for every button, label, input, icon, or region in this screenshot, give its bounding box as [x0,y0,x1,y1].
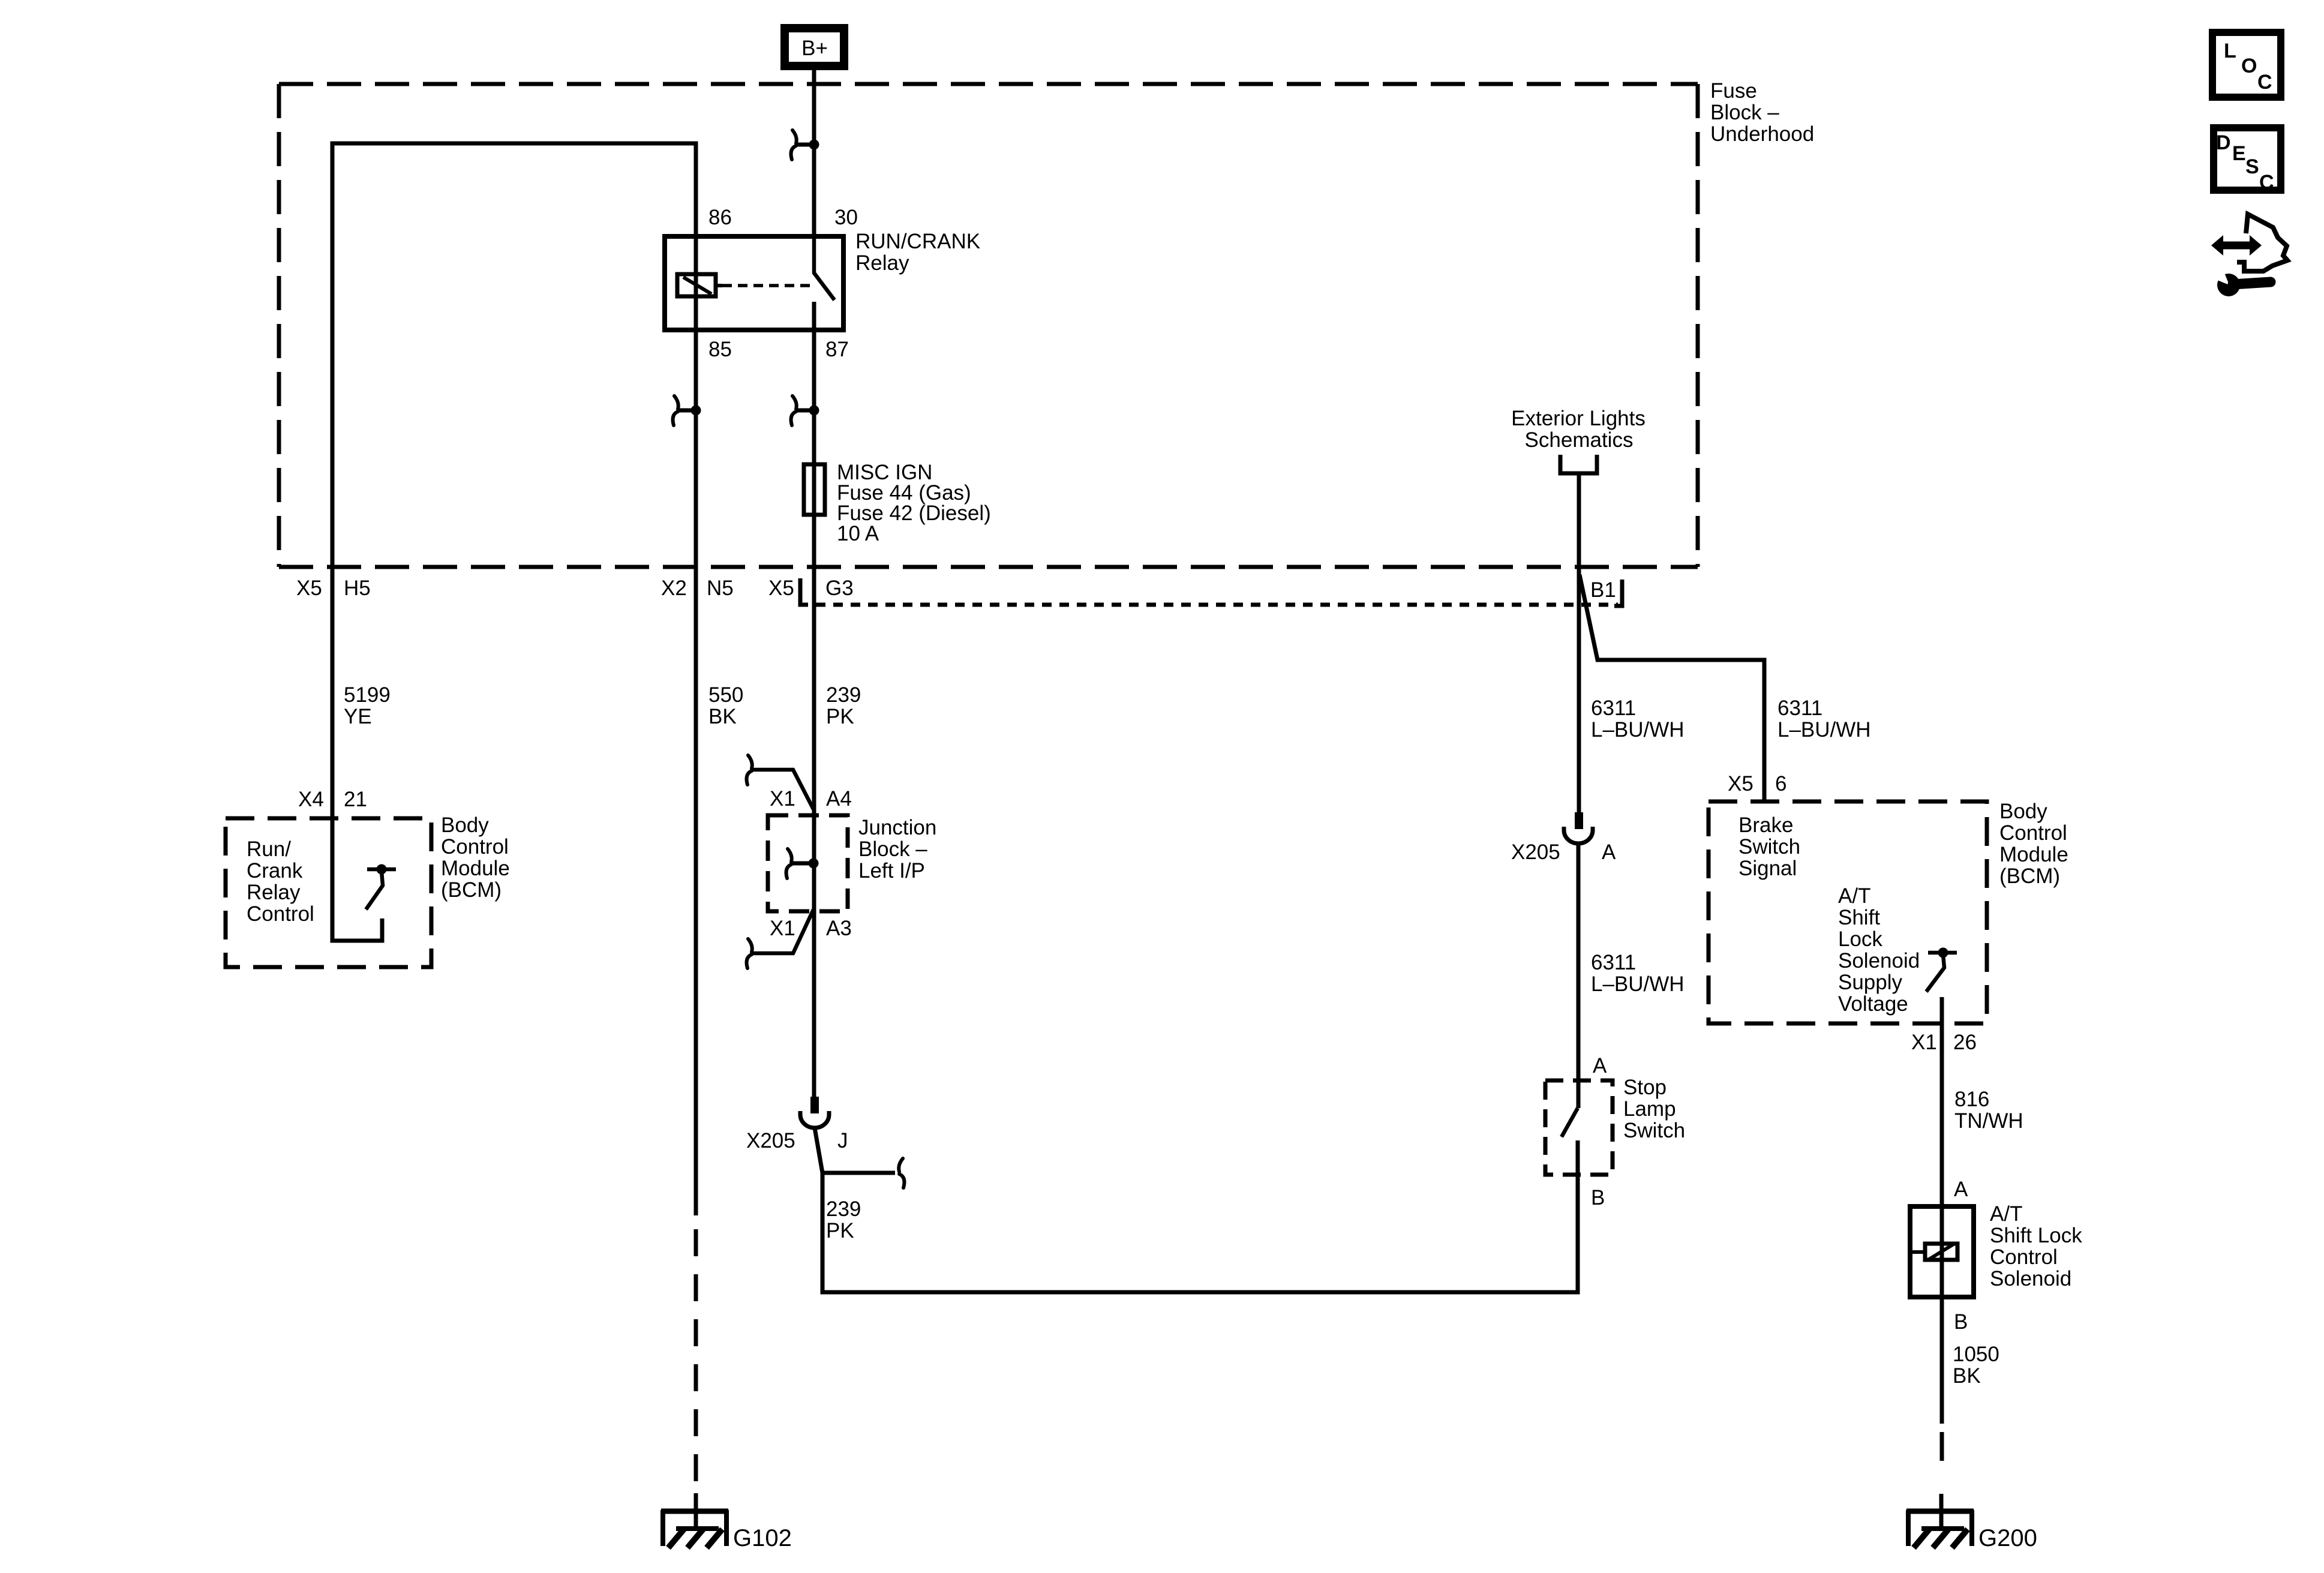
label RUN/CRANK Relay [855,230,980,275]
wire 239 PK relay 87 down to X205 J [812,330,816,1098]
wire 6311 exterior lights to X205 A [1577,475,1581,812]
svg-text:X1: X1 [770,787,795,810]
svg-text:Signal: Signal [1739,857,1797,880]
wire label 6311 L-BU/WH lower [1591,951,1685,996]
svg-text:6: 6 [1775,772,1786,795]
label Fuse Block - Underhood [1710,79,1814,146]
svg-text:6311: 6311 [1591,951,1636,974]
fuse block underhood enclosure (dashed) [279,84,1698,567]
label MISC IGN fuse [837,461,991,545]
connector labels X4 21 [298,788,367,811]
label Body Control Module (BCM) right [1999,800,2068,888]
svg-text:A: A [1593,1054,1607,1077]
svg-text:Switch: Switch [1739,835,1800,858]
svg-text:O: O [2241,55,2257,77]
connector labels X1 A3 [770,917,852,940]
branch clip at X205 J [822,1158,904,1188]
svg-text:X205: X205 [1511,840,1560,864]
connector bracket X5 G3 [800,578,808,605]
wire 239 PK X205 J to stop lamp switch B [815,1128,1578,1292]
svg-text:Solenoid: Solenoid [1990,1267,2071,1290]
relay coil [677,274,722,296]
svg-text:X2: X2 [661,577,687,600]
label A/T Shift Lock Solenoid Supply Voltage [1838,884,1920,1016]
svg-text:L–BU/WH: L–BU/WH [1591,718,1685,742]
exterior lights off-page bracket [1560,455,1597,473]
svg-text:26: 26 [1953,1031,1977,1054]
wire 6311 X205 A to stop lamp A [1577,843,1581,1108]
svg-text:Left I/P: Left I/P [858,859,925,882]
svg-text:L–BU/WH: L–BU/WH [1777,718,1871,742]
wire label 550 BK [708,683,743,728]
svg-text:TN/WH: TN/WH [1954,1109,2023,1133]
label Run/Crank Relay Control [247,837,314,926]
svg-text:BK: BK [708,705,737,728]
svg-text:Stop: Stop [1623,1076,1667,1099]
splice clip on B+ wire [791,130,819,160]
navigation icon wrench [2213,267,2271,296]
connector X205 A terminal [1564,812,1593,843]
svg-text:B: B [1954,1310,1968,1334]
svg-text:Run/: Run/ [247,837,291,861]
A/T shift lock control solenoid box [1910,1206,1974,1297]
svg-text:550: 550 [708,683,743,707]
svg-text:86: 86 [708,206,732,229]
svg-text:G3: G3 [825,577,854,600]
wire label 1050 BK [1953,1343,1999,1388]
svg-text:5199: 5199 [344,683,391,707]
wire label 239 PK lower [826,1197,861,1242]
svg-text:Body: Body [1999,800,2047,823]
wire label 239 PK [826,683,861,728]
svg-text:Crank: Crank [247,859,303,882]
navigation icon outline [2237,214,2287,271]
connector row labels X2 N5 [661,577,734,600]
svg-text:X1: X1 [1911,1031,1937,1054]
LOC icon [2212,32,2281,97]
svg-text:Underhood: Underhood [1710,122,1814,146]
connector row labels X5 H5 [296,577,371,600]
label Stop Lamp Switch [1623,1076,1685,1142]
svg-text:239: 239 [826,1197,861,1221]
svg-text:X4: X4 [298,788,324,811]
BCM left enclosure (dashed) [226,818,431,967]
svg-text:Control: Control [441,835,509,858]
svg-text:85: 85 [708,338,732,361]
svg-text:A: A [1954,1178,1968,1201]
svg-text:B: B [1591,1186,1605,1209]
svg-text:Lamp: Lamp [1623,1097,1676,1121]
wire relay pin 86 to BCM H5 (5199 YE run) [332,143,696,818]
svg-text:D: D [2216,131,2231,154]
solenoid coil [1910,1244,1957,1260]
svg-text:Solenoid: Solenoid [1838,949,1920,972]
svg-text:Supply: Supply [1838,971,1903,994]
svg-text:YE: YE [344,705,372,728]
svg-text:G200: G200 [1978,1525,2037,1551]
svg-text:X5: X5 [768,577,794,600]
relay pin labels [708,206,858,361]
svg-text:X1: X1 [770,917,795,940]
label Junction Block - Left I/P [858,816,936,882]
svg-text:L–BU/WH: L–BU/WH [1591,972,1685,996]
navigation icon double arrow [2211,235,2262,256]
svg-text:J: J [837,1129,848,1152]
label A/T Shift Lock Control Solenoid [1990,1202,2082,1290]
connector branch X1 A3 [747,909,813,968]
svg-text:G102: G102 [733,1525,792,1551]
connector bracket B1 [1614,580,1622,606]
svg-text:1050: 1050 [1953,1343,1999,1366]
relay coil wire pin 86 to 85 [694,236,698,330]
wire 550 BK relay 85 to ground [694,330,698,1529]
svg-text:239: 239 [826,683,861,707]
svg-text:Module: Module [441,857,510,880]
wire 1050 BK solenoid B to ground [1941,1299,1942,1529]
svg-text:Block –: Block – [1710,101,1779,124]
wire label 816 TN/WH [1954,1088,2023,1133]
svg-text:H5: H5 [344,577,371,600]
svg-text:A/T: A/T [1838,884,1870,908]
svg-text:X5: X5 [296,577,322,600]
svg-text:RUN/CRANK: RUN/CRANK [855,230,980,253]
svg-text:BK: BK [1953,1364,1981,1388]
svg-text:Voltage: Voltage [1838,992,1908,1016]
svg-text:Control: Control [1990,1245,2058,1269]
svg-text:30: 30 [834,206,858,229]
svg-text:A: A [1602,840,1616,864]
svg-text:C: C [2259,171,2274,194]
svg-text:Fuse: Fuse [1710,79,1757,103]
svg-text:L: L [2224,40,2236,62]
junction block enclosure (dashed) [768,815,848,911]
svg-text:Shift: Shift [1838,906,1880,929]
svg-text:B+: B+ [801,37,828,60]
svg-text:A/T: A/T [1990,1202,2022,1226]
relay actuation dashed link [722,284,811,287]
connector branch X1 A4 [747,755,813,809]
connector labels X205 J [746,1129,848,1152]
svg-text:Module: Module [1999,843,2068,866]
svg-text:PK: PK [826,705,854,728]
svg-text:10 A: 10 A [837,522,879,545]
ground G102 [661,1510,792,1551]
stop lamp switch blade [1562,1108,1578,1137]
solenoid internal wire [1940,1206,1944,1297]
dotted connector line [816,603,1618,607]
svg-text:X205: X205 [746,1129,795,1152]
svg-text:(BCM): (BCM) [1999,864,2060,888]
svg-text:87: 87 [825,338,849,361]
wire label 6311 L-BU/WH left [1591,697,1685,742]
label Body Control Module (BCM) left [441,813,510,902]
svg-text:Control: Control [247,902,314,926]
svg-text:A4: A4 [826,787,852,810]
connector X205 J terminal [800,1097,829,1128]
wire 816 BCM X1-26 to solenoid A [1940,997,1944,1206]
svg-text:Control: Control [1999,821,2067,845]
svg-text:PK: PK [826,1219,854,1242]
connector labels X1 26 [1911,1031,1977,1054]
BCM shift lock supply driver switch [1926,948,1957,992]
connector labels X5 6 [1728,772,1786,795]
splice clip on 550 BK wire [673,396,701,425]
splice clip on 239 PK wire [791,396,819,425]
relay K: RUN/CRANK Relay box [665,236,843,330]
connector labels X205 A [1511,840,1616,864]
connector row labels X5 G3 [768,577,854,600]
wire 6311 branch B1 to BCM X5-6 [1580,575,1764,803]
svg-text:21: 21 [344,788,367,811]
svg-text:Switch: Switch [1623,1119,1685,1142]
splice clip inside junction block [786,849,819,878]
svg-text:816: 816 [1954,1088,1989,1111]
svg-text:Junction: Junction [858,816,936,839]
wire B+ to relay pin 30 [812,70,816,236]
svg-text:Body: Body [441,813,489,837]
svg-text:A3: A3 [826,917,852,940]
svg-text:C: C [2257,71,2272,94]
power symbol B+ [785,28,844,66]
svg-text:6311: 6311 [1777,697,1822,720]
svg-text:Relay: Relay [247,881,301,904]
fuse MISC IGN [804,464,825,515]
svg-text:Schematics: Schematics [1525,428,1634,452]
stop lamp switch enclosure (dashed) [1545,1080,1613,1175]
wire label 6311 L-BU/WH right [1777,697,1871,742]
wire label 5199 YE [344,683,391,728]
svg-text:6311: 6311 [1591,697,1636,720]
BCM run/crank relay control driver switch [332,818,396,941]
svg-text:E: E [2232,142,2246,165]
svg-text:Lock: Lock [1838,927,1882,951]
BCM right enclosure (dashed) [1709,801,1987,1023]
ground G200 [1906,1510,2037,1551]
connector labels X1 A4 [770,787,852,810]
svg-text:Block –: Block – [858,837,927,861]
svg-text:Exterior Lights: Exterior Lights [1511,407,1646,430]
svg-text:S: S [2245,155,2259,178]
svg-text:(BCM): (BCM) [441,878,502,902]
relay switch pin 30 to 87 [814,236,834,330]
label Exterior Lights Schematics [1511,407,1646,452]
svg-text:B1: B1 [1590,578,1616,602]
svg-text:X5: X5 [1728,772,1753,795]
svg-text:Shift Lock: Shift Lock [1990,1224,2082,1247]
svg-text:N5: N5 [707,577,734,600]
svg-text:Relay: Relay [855,251,909,275]
label Brake Switch Signal [1739,813,1800,880]
svg-text:Brake: Brake [1739,813,1793,837]
DESC icon [2214,128,2281,194]
